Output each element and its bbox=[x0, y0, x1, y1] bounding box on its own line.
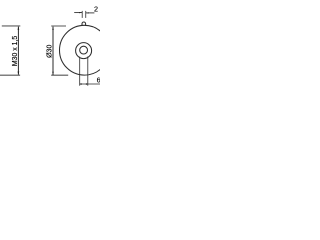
M30 top extension line bbox=[2, 25, 21, 27]
big circle (cap outline, right side clipped) bbox=[60, 25, 110, 75]
D30 bottom arrowhead bbox=[52, 72, 54, 75]
D30 bottom extension line bbox=[51, 74, 68, 76]
dim6 left extension line bbox=[79, 57, 81, 86]
inner ring (hole circle) bbox=[80, 46, 88, 54]
svg-text:M30 x 1,5: M30 x 1,5 bbox=[12, 36, 19, 66]
dim6 left dot bbox=[80, 83, 82, 85]
D30 top extension line bbox=[51, 25, 66, 27]
M30 bottom extension line bbox=[0, 74, 20, 76]
dim2 right leader line bbox=[86, 12, 94, 14]
svg-text:Ø30: Ø30 bbox=[47, 45, 54, 58]
dim2 left arrowhead bbox=[79, 12, 82, 13]
dim2 left extension tick bbox=[81, 11, 83, 18]
D30 dimension line bbox=[52, 27, 54, 76]
M30 bottom arrowhead bbox=[18, 72, 20, 75]
dim2 right extension tick bbox=[85, 11, 87, 18]
D30 top arrowhead bbox=[52, 27, 54, 30]
dim2 left arrow line bbox=[74, 12, 82, 14]
dim6 right extension line bbox=[87, 56, 89, 85]
svg-text:2: 2 bbox=[94, 4, 98, 13]
dim6 right dot bbox=[86, 83, 88, 85]
M30 top arrowhead bbox=[18, 27, 20, 30]
dim6 dimension line bbox=[80, 83, 100, 85]
nub (tab on top of cap) bbox=[82, 22, 86, 26]
dim2 right arrowhead bbox=[86, 12, 89, 13]
background bbox=[0, 0, 100, 100]
outer ring (boss circle) bbox=[76, 43, 92, 59]
M30 dimension line bbox=[17, 27, 19, 75]
svg-text:6: 6 bbox=[97, 78, 100, 85]
